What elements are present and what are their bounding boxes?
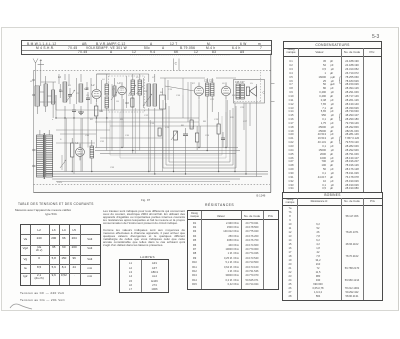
variable capacitor C8 (143, 94, 152, 106)
svg-text:C26 C27: C26 C27 (235, 81, 245, 84)
output transformer C26 C27 (235, 81, 245, 99)
speaker box (234, 80, 265, 104)
tube L2 RF amp (92, 83, 102, 103)
capacitor C19 (221, 132, 225, 148)
wire antenna to tuner (40, 92, 56, 110)
switch arrows (60, 155, 66, 170)
resistor R2 (126, 98, 135, 107)
svg-text:B 1246: B 1246 (257, 194, 266, 198)
coil L1b (44, 76, 47, 112)
resistor R12 (71, 138, 74, 172)
component value labels (52, 77, 253, 184)
resistances parts table (205, 203, 234, 207)
tube L3 driver (194, 82, 203, 99)
junction dots (55, 111, 246, 174)
wire plate V1 (97, 74, 111, 85)
tube L4 output pentode (221, 82, 230, 99)
svg-text:L1: L1 (30, 81, 33, 83)
capacitor C5b (59, 84, 62, 98)
trimmer C4 (111, 84, 117, 108)
bobines parts table (282, 192, 383, 301)
wire drops to bus (56, 95, 257, 177)
coil L5 (131, 74, 135, 108)
power transformer T1 (37, 130, 53, 179)
wire risers mid (165, 78, 250, 130)
chassis frame (34, 54, 272, 193)
capacitor C2 (72, 104, 76, 118)
coil L2 (58, 74, 67, 118)
choke L9 (90, 140, 94, 172)
pencil mark (8, 300, 34, 312)
mains switch S1 (33, 149, 37, 167)
wire loop 2 (166, 103, 233, 165)
rectifier tube L1 (76, 141, 85, 160)
wire bus top (41, 74, 236, 82)
terminal ticks (271, 84, 275, 102)
coil L3 (79, 74, 88, 112)
electrolytic C24 (195, 126, 198, 150)
svg-text:R2: R2 (126, 101, 130, 105)
antenna (33, 59, 44, 87)
capacitor C23 (183, 128, 188, 142)
wire HT bus (95, 148, 240, 154)
coil L1c (52, 82, 55, 118)
wire horizontals mid (56, 130, 163, 143)
small cap C6b (86, 82, 89, 89)
wire loop 1 (163, 100, 236, 168)
title block (21, 40, 272, 55)
wire ground bus (45, 172, 268, 182)
coil L7 (147, 74, 151, 120)
wire loop 3 (169, 106, 230, 162)
potentiometer R5 (171, 131, 178, 140)
coil L4b (113, 78, 116, 110)
variable capacitor C1 (66, 88, 75, 104)
slug arrows (129, 85, 143, 94)
wire verticals tuner (59, 74, 144, 112)
coil L1 antenna transformer (30, 81, 40, 114)
capacitor C3 (86, 92, 90, 108)
coil L4 IF primary (105, 74, 109, 120)
coupling block (160, 88, 166, 120)
svg-text:220V: 220V (57, 182, 63, 184)
terminal node A (33, 79, 35, 96)
paired wire drops (66, 99, 227, 172)
fig caption (141, 198, 150, 202)
tube L3 detector (118, 81, 127, 99)
voltages table (18, 202, 94, 206)
coil L6 (138, 74, 142, 104)
wire grid feed (165, 78, 194, 100)
resistor R9 (217, 118, 220, 148)
small component block D1 (158, 120, 193, 136)
svg-text:R1: R1 (100, 109, 104, 113)
wire loop 5 (110, 116, 222, 155)
coil L8 (153, 74, 157, 116)
wire AVC line (56, 110, 219, 126)
svg-text:C: C (175, 62, 178, 66)
resistor R1 (95, 103, 104, 122)
shield box dashed (109, 76, 145, 112)
ground (78, 112, 84, 115)
loudspeaker (246, 84, 265, 98)
dashed chassis boundary right (234, 72, 261, 102)
wire loop 4 (120, 112, 226, 158)
lampes table (140, 255, 155, 259)
svg-text:C21 C22: C21 C22 (204, 80, 214, 83)
node C pickup terminal (174, 59, 180, 71)
IF transformer C21 C22 (204, 78, 214, 118)
condensateurs parts table (283, 41, 382, 193)
